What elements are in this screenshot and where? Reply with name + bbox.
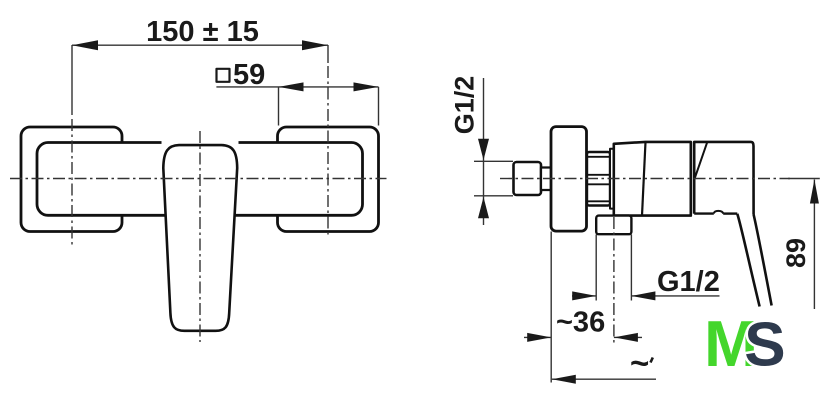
front view: lever handle bbox=[163, 145, 237, 331]
dimension ~36 left arrow bbox=[527, 333, 551, 342]
set screw bump bbox=[714, 211, 723, 214]
valve body cartridge joint line bbox=[642, 142, 646, 216]
dimension 89 up arrow bbox=[810, 180, 819, 204]
dimension square-59 line bbox=[216, 86, 378, 88]
wall plate extension line long bbox=[550, 232, 552, 383]
outlet extension line left bbox=[595, 235, 597, 301]
side view: valve body bbox=[614, 142, 691, 216]
G1/2 inlet dimension up arrow bbox=[478, 197, 489, 218]
centerline left cap vertical (solid extension part) bbox=[71, 45, 73, 115]
side view: shower outlet fitting bbox=[596, 216, 631, 235]
outlet extension line right bbox=[630, 235, 632, 301]
G1/2 inlet dimension tick top bbox=[474, 160, 513, 162]
svg-text:150 ± 15: 150 ± 15 bbox=[146, 16, 259, 48]
side view: inlet connector knob bbox=[514, 162, 542, 195]
handle hub bottom edge bbox=[694, 212, 714, 214]
centerline right cap vertical (solid extension part) bbox=[327, 45, 329, 63]
G1/2 outlet left arrow bbox=[572, 291, 596, 300]
body top edge hidden behind handle (white mask) bbox=[162, 140, 239, 145]
front view: right wall escutcheon cap bbox=[278, 127, 379, 232]
svg-text:~36: ~36 bbox=[556, 307, 605, 339]
G1/2 inlet dimension tick bottom bbox=[474, 195, 513, 197]
dimension ~36 line left bbox=[524, 336, 551, 338]
svg-text:S: S bbox=[744, 311, 785, 380]
dimension ~36 line right bbox=[614, 336, 642, 338]
side view: wall escutcheon plate bbox=[551, 127, 587, 232]
centerline horizontal front view bbox=[10, 178, 387, 180]
dimension 150±15 line bbox=[72, 44, 328, 46]
side view: centerline extension solid to 89 dimension bbox=[788, 178, 820, 180]
dimension square symbol bbox=[217, 69, 230, 82]
side view: hex nut bbox=[587, 152, 610, 206]
dimension 150±15 left arrow bbox=[72, 40, 98, 50]
centerline handle vertical bbox=[199, 131, 201, 342]
hex nut facet line 2 bbox=[587, 174, 610, 176]
G1/2 outlet right arrow bbox=[631, 291, 655, 300]
front view: left wall escutcheon cap bbox=[21, 127, 122, 232]
svg-text:59: 59 bbox=[233, 59, 265, 91]
dimension ~36 right arrow bbox=[614, 333, 638, 342]
svg-text:G1/2: G1/2 bbox=[657, 266, 720, 298]
cropped digit stub of bottom overall dimension bbox=[651, 358, 653, 363]
hex nut facet line 3 bbox=[587, 183, 610, 185]
side view: connector stem bbox=[541, 168, 552, 191]
hex nut facet line 4 bbox=[587, 200, 610, 202]
bottom overall dimension arrow bbox=[552, 375, 576, 384]
side view: centerline horizontal bbox=[500, 178, 790, 180]
dimension square-59 extension line right bbox=[378, 87, 380, 126]
dimension 89 vertical line bbox=[813, 180, 815, 310]
G1/2 inlet dimension vertical line bbox=[483, 78, 485, 225]
lever right edge bbox=[754, 215, 772, 306]
dimension square-59 left arrow bbox=[279, 82, 304, 91]
side view: washer bbox=[610, 149, 614, 209]
svg-text:~: ~ bbox=[630, 345, 649, 382]
bottom overall dimension line (cropped) bbox=[552, 378, 656, 380]
handle hub bottom edge right bbox=[723, 212, 737, 214]
dimension 150±15 right arrow bbox=[302, 40, 328, 50]
front view: mixer body bbox=[37, 143, 363, 216]
G1/2 outlet dimension line right bbox=[631, 295, 719, 297]
svg-text:G1/2: G1/2 bbox=[450, 76, 480, 135]
hex nut facet line 1 bbox=[587, 156, 610, 158]
svg-text:89: 89 bbox=[781, 238, 811, 268]
G1/2 outlet dimension line left bbox=[572, 295, 596, 297]
outlet centerline vertical bbox=[613, 217, 615, 346]
side view: handle hub gap line bbox=[693, 142, 696, 214]
dimension square-59 extension line left bbox=[278, 87, 280, 126]
handle skirt cone line bbox=[695, 142, 707, 178]
G1/2 inlet dimension down arrow bbox=[478, 139, 489, 160]
centerline right cap vertical bbox=[327, 66, 329, 238]
lever left edge bbox=[737, 214, 759, 307]
centerline left cap vertical bbox=[71, 119, 73, 245]
dimension square-59 right arrow bbox=[354, 82, 379, 91]
side view: handle hub bbox=[694, 142, 753, 215]
